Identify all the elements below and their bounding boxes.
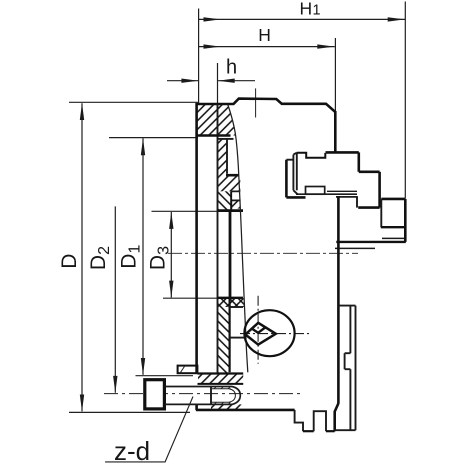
- svg-text:h: h: [226, 57, 237, 79]
- svg-text:D: D: [58, 254, 81, 269]
- svg-text:z-d: z-d: [114, 436, 150, 466]
- svg-text:H: H: [300, 0, 313, 19]
- svg-text:H: H: [258, 25, 271, 45]
- svg-text:1: 1: [313, 3, 321, 19]
